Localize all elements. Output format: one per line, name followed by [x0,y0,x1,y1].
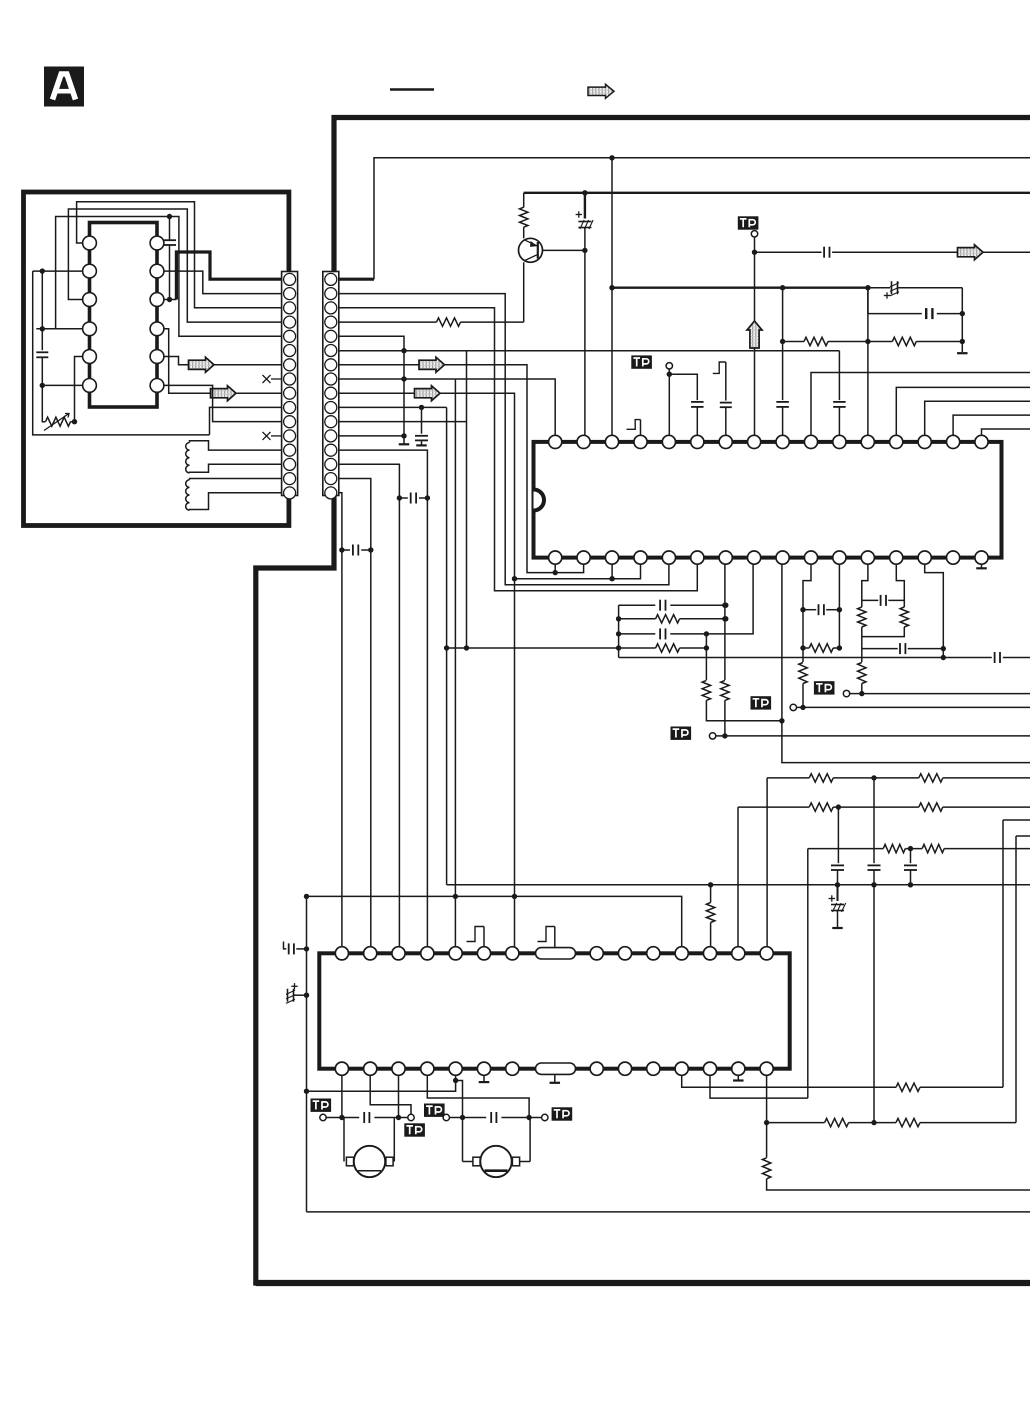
test point TP203 [671,727,692,740]
wire long vertical x446 [446,407,448,884]
IC IC202 pin circles bottom [335,1062,348,1075]
motor M2 [529,1118,531,1162]
signal arrow right y252 [958,245,984,260]
wire with capacitor C218 [862,648,898,650]
wire top feed to IC201 pin3 [611,158,613,442]
IC IC202 pad top [536,948,576,959]
wire IC202 pin1 bottom to motor node [341,1069,343,1118]
wire IC201 pin14 bottom to bus [925,558,944,658]
wire node down to R212 [861,649,863,662]
wire R223 to bottom-right rail [767,1179,1030,1190]
connector CN201 (main side) [323,272,339,496]
test point TP209 [542,1114,548,1120]
wire x874 down to bottom resistors [873,885,875,1123]
IC U101 pin circles left [83,236,97,250]
capacitor C203 (electrolytic horizontal) [884,295,890,297]
wire network ladder left vertical [618,605,620,657]
wire IC201 pin13 out [896,387,1030,442]
wire IC201 pin15 out [953,415,1030,442]
wire resistor row y341 [783,341,804,343]
capacitor C211 bridge [399,497,407,499]
junction L6 row tap [40,383,45,388]
junction rail-pin9 [780,285,785,290]
wire IC202 pin12 bottom row with resistor R220 [682,1069,896,1088]
transistor Q201 [519,238,543,262]
waveform mark IC201 pin7 [713,362,726,373]
junction VR101 to L5 [72,419,77,424]
signal arrow into row7 [189,357,215,372]
wire row10 to long vertical [339,406,447,408]
wire IC202 pin13 bottom row [710,1069,808,1098]
capacitor C222 chain [910,849,912,864]
potentiometer VR101 [46,417,71,426]
wire row5 to ground stub [339,336,404,443]
inductor L102 [186,480,190,510]
ground stub IC202 pad bottom [554,1074,556,1082]
junction rail tap [582,190,587,195]
IC IC201 pin circles bottom [549,551,562,564]
ground stub IC202 pin6 bottom [483,1069,485,1082]
wire right link upper [1003,819,1030,821]
signal arrow row9 [415,386,441,401]
resistor R202b [892,337,916,345]
capacitor C214 row to IC201 pin8 [619,633,656,635]
sheet label A [44,67,84,107]
wire row11 [339,421,467,423]
junction rail end [865,285,870,290]
wire supply rail y190 [524,192,1030,194]
IC IC202 body [319,953,789,1068]
wire rail to C203 [868,287,890,289]
wire IC201 pin9 bottom out [782,558,1030,763]
IC IC201 index notch [534,490,545,511]
terminator bar [399,443,410,445]
wire IC201 pin10 out [811,373,1030,442]
capacitor C223 stub [284,942,287,949]
legend wire sample [390,88,434,91]
test point TP202 [631,355,652,368]
capacitor C224 electrolytic stub [291,985,297,987]
IC IC202 pin circles top [335,947,348,960]
main circuit block border [256,118,1030,1284]
IC IC202 pad bottom [536,1063,576,1074]
wire pin R5 to row7 (via arrow) [163,357,282,365]
wire row R213/R214 (y778) [767,777,809,779]
wire signal out y252 [755,251,822,253]
resistor R212 [858,663,866,684]
wire row4 with resistor R203 to Q201 [339,321,437,323]
test point TP206 [311,1099,332,1112]
IC U101 body [90,223,158,408]
wire U2 loop pin L3 to row4 [68,209,281,322]
resistor R211 [900,607,908,627]
wire C214 node down chain [705,634,707,680]
wire to IC202 pin15 top [766,778,768,953]
wire IC202 pin8 top step mark [538,927,555,942]
capacitor C102 [36,351,48,353]
wire IC202 pin5 bottom long left [307,1069,456,1092]
test point TP204 [751,696,772,709]
junction cap C101 top tap [167,214,172,219]
wire row8 branch [339,378,455,380]
resistor R206 [721,680,729,700]
wire row R215/R216 (y807) [738,806,809,808]
wire TP203 out [725,735,1030,737]
wire vertical x466 [466,351,468,648]
motor M1 [343,1118,345,1162]
capacitor C220 electrolytic to ground [837,885,839,901]
resistor R219 to IC202 pin13 top [710,885,712,903]
junction top line [609,155,614,160]
junction base node [582,248,587,253]
wire TP205 out [862,693,1030,695]
sub block border [24,192,289,526]
wire IC201 pin7 bottom chain [724,558,726,680]
capacitor C221 chain [873,778,875,863]
connector CN101 (sub side) [282,272,298,496]
junctions bus y896 [304,894,309,899]
wire row12 stub [339,435,404,437]
wire bottom rail y1212 [307,1211,1030,1213]
wire pin L5 to VR101 [75,357,84,422]
resistor R204 row [619,618,656,620]
tail IC201 pins3-4 bottom [515,558,641,579]
wire mid rail y287 [612,287,868,289]
wire node down to R209 [802,610,804,662]
junction C101 to pin R3 wire [167,297,172,302]
waveform mark IC201 pin4 [627,420,641,430]
capacitor C213 row [619,604,656,606]
wire to IC201 pin12 [867,288,869,442]
capacitor C217 [862,599,879,601]
wire branch to motor2 left node [456,1081,463,1118]
wire row13 to IC202 pin4 [339,450,427,953]
wire TP204 out [803,706,1030,708]
wire IC202 pin3 bottom to motor node [398,1069,400,1118]
wire row3 left vertical down [807,849,809,1099]
wire pin R2 to row2 [163,271,282,294]
test point TP205 [814,681,835,694]
resistor R201 [523,193,525,208]
wire bus y896 to IC202 pin12 [307,896,682,953]
no-connection mark row12 [271,435,282,437]
wire Q201 base [543,249,585,251]
wire to IC201 pin9 with capacitor C205 [782,288,784,400]
junctions on row5 vertical [401,348,406,353]
capacitor C207 on pin7 [725,362,727,401]
wire row2 to IC202 pin5 tail [339,294,669,585]
wire U3 loop pin L4 to row5 [56,217,282,337]
IC IC201 body [534,442,1002,558]
wire to IC201 pin2 [584,250,586,442]
capacitor C226 [490,1112,492,1123]
wire to IC202 pin14 top [737,807,739,953]
wire row7 to IC201 pins1-2 bottom tail [339,365,584,573]
test point TP208 [424,1104,445,1117]
wire row15 to IC202 pin2 [339,479,371,954]
wire row16 to IC202 pin1 [339,493,342,954]
capacitor C101 [169,217,171,241]
capacitor C216 [803,609,816,611]
wire Q201 emitter to row4 [523,262,525,322]
wire IC201 pin14 out [925,401,1030,442]
capacitor C209 [833,401,846,403]
wire motor M2 cap row [450,1117,487,1119]
junction mid rail [609,285,614,290]
junction pin1 bottom tail [553,570,558,575]
wire row3 to IC202 pin6 tail [339,308,697,591]
wire bus y657 with capacitor C215 [619,657,992,659]
signal arrow into row9 [211,386,237,401]
connector CN201 pin circles [325,273,337,285]
legend signal-arrow sample [588,84,614,98]
wire to potentiometer [42,385,45,421]
test point TP207 [408,1114,414,1120]
capacitor C202 [823,247,825,258]
wire IC202 pin15 bottom chain [766,1069,768,1123]
wire pin L6 feed [42,384,83,386]
signal arrow up to IC201 pin6 [747,321,762,348]
wire TP202 to capacitor C206 [669,374,697,400]
wire IC202 pin5 top step mark [467,927,485,942]
resistor R207 [702,680,710,700]
wire IC202 pin2 bottom to TP node [370,1069,411,1115]
wire IC201 pin12-13 network [862,558,868,607]
wire row9 to tail pins3-4 and IC202 pin7 [339,393,515,953]
resistor R202a [804,337,828,345]
no-connection mark row8 [271,378,282,380]
ground stub IC202 pin14 bottom [737,1069,739,1080]
wire pin L2 feed [33,270,84,272]
connector CN101 pin circles [284,273,296,285]
signal arrow row7 [419,357,445,372]
wire row R217/R218 (y848) [808,848,884,850]
wire bus y884 [447,884,1030,886]
wire motor M1 cap row [326,1117,359,1119]
wire row14 to IC202 pin3 [339,464,399,953]
capacitor C212 bridge [342,549,350,551]
capacitor C219 chain [837,807,839,863]
wire IC202 pin4 bottom to motor2 node [427,1069,529,1118]
wire left chain x306 [306,896,308,1212]
wire row8 down to IC202 pin5 [454,379,456,953]
wire U1 loop pin L1 to row3 [77,202,282,308]
wire pin R6 to row11 [163,385,282,421]
junction L4 row tap [40,326,45,331]
capacitor C204 loop [868,288,922,314]
wire row6 long to C209/pin11 [339,350,839,352]
capacitor C210 with ground [421,407,423,433]
capacitor C201 (electrolytic) [584,193,586,219]
capacitor C225 [363,1112,365,1123]
thick supply wire R3 to row1 [176,252,281,300]
terminator IC201 pin16 bottom [981,558,983,568]
wire R206 to TP node [724,700,726,736]
resistor R208 [803,647,809,649]
wire right link lower [1016,835,1030,837]
terminator bar below C203 loop [957,352,968,354]
resistor R223 vertical [766,1123,768,1158]
wire IC201 pin16 out [982,429,1030,442]
inner boundary wire top [339,278,374,281]
IC IC201 pin circles top [549,435,562,448]
main block bottom border reinforcement [256,1280,1030,1286]
wire IC201 pin10-11 network [803,558,811,610]
wire resistor row y1122 R221/R222 [767,1122,825,1124]
inductor L101 [186,443,190,473]
resistor R205 row on long wire [447,647,656,649]
wire TP201 node [754,237,756,442]
wire pin R4 to row9 (via arrow) [163,329,282,393]
IC U101 pin circles right [150,236,164,250]
test point TP201 [738,216,759,229]
resistor R209 [799,663,807,684]
wire pin R3 stub [163,299,177,301]
junction L2 row tap [40,268,45,273]
resistor R210 [858,607,866,627]
wire left branch vertical [41,271,43,350]
wire long loop L2 to row10 [33,271,210,435]
